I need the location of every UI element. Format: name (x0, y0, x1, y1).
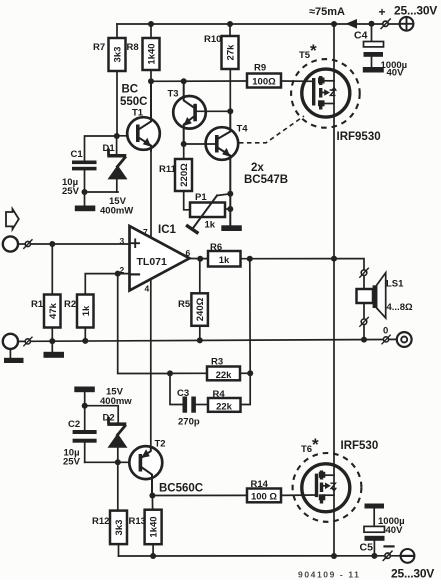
node output R5 junction (197, 256, 203, 262)
resistor R1 (51, 244, 53, 295)
mosfet T6 internals (315, 474, 318, 498)
svg-text:BC560C: BC560C (159, 483, 203, 495)
ground below input bottom (9, 349, 11, 358)
thermal coupling dashed line T4 to T5 (239, 116, 304, 143)
minus input symbol (132, 273, 140, 275)
transistor T4 (206, 127, 239, 160)
wire input to IC1 pin3 (30, 243, 129, 245)
mosfet T6 body circle (302, 464, 350, 512)
svg-text:IRF9530: IRF9530 (337, 131, 381, 143)
svg-text:40V: 40V (387, 68, 405, 79)
node T3 collector junction (181, 78, 187, 84)
node feedback column top junction (247, 256, 253, 262)
node R8 top junction (148, 21, 154, 27)
wire output to speaker (334, 259, 364, 270)
svg-text:T6: T6 (301, 444, 312, 455)
svg-text:R14: R14 (251, 479, 269, 490)
connector slash input bottom (18, 340, 25, 342)
node T5 column top junction (331, 21, 337, 27)
wire T2 base line (85, 461, 139, 463)
svg-text:R3: R3 (211, 357, 223, 368)
resistor R8 (143, 38, 160, 70)
wire R11 bottom to P1 left (184, 191, 190, 210)
node P1 wiper junction (227, 191, 233, 197)
resistor R5 (199, 259, 201, 294)
svg-text:1k: 1k (81, 305, 92, 316)
svg-text:0: 0 (383, 326, 388, 337)
mosfet T6 heatsink dashed circle (293, 453, 362, 522)
svg-text:LS1: LS1 (386, 279, 404, 290)
svg-text:T3: T3 (168, 89, 179, 100)
svg-text:IRF530: IRF530 (341, 440, 379, 452)
label minus sign at supply (385, 545, 394, 547)
wire C1 bottom to D1 bottom (85, 191, 119, 193)
svg-text:904109 - 11: 904109 - 11 (298, 570, 361, 580)
wire positive top rail (117, 23, 400, 25)
node output column junction (331, 256, 337, 262)
resistor R4 (208, 398, 241, 412)
svg-text:D1: D1 (103, 143, 116, 154)
node R1 top junction (49, 241, 55, 247)
svg-text:25V: 25V (63, 457, 81, 468)
wire P1 right to T4 emitter column (225, 208, 230, 210)
zener D2 (107, 422, 126, 426)
terminal plus supply (400, 17, 414, 31)
svg-text:C1: C1 (71, 149, 84, 160)
svg-text:C4: C4 (354, 30, 368, 42)
svg-text:3: 3 (120, 236, 125, 246)
svg-text:22k: 22k (216, 370, 233, 381)
svg-text:40V: 40V (386, 525, 404, 536)
svg-text:C5: C5 (360, 542, 374, 554)
svg-text:47k: 47k (48, 302, 59, 319)
svg-text:R12: R12 (92, 516, 109, 527)
zener D1 (116, 136, 118, 155)
wire to R3 (170, 372, 207, 374)
wire R3 right to feedback column (240, 372, 250, 374)
svg-text:220Ω: 220Ω (179, 163, 190, 187)
capacitor C4 (371, 24, 373, 42)
resistor R7 (109, 38, 126, 71)
wire R8 branch from rail (150, 24, 152, 38)
node feedback R3 C3 junction (167, 370, 173, 376)
svg-text:100Ω: 100Ω (252, 77, 276, 88)
svg-text:BC: BC (122, 84, 139, 96)
svg-text:4: 4 (145, 284, 150, 294)
resistor R11 (183, 144, 185, 159)
terminal 0 output (397, 332, 412, 347)
svg-text:R7: R7 (93, 42, 105, 53)
svg-text:6: 6 (186, 248, 191, 258)
wire R7 bottom to base node (116, 71, 118, 136)
svg-text:T2: T2 (155, 439, 166, 450)
resistor R6 (208, 251, 241, 267)
terminal input bottom (3, 334, 18, 349)
svg-text:D2: D2 (103, 413, 115, 424)
svg-text:25V: 25V (62, 186, 80, 197)
transistor T2 (129, 446, 162, 479)
svg-text:22k: 22k (216, 401, 233, 412)
node R1 bottom junction (49, 338, 55, 344)
svg-text:27k: 27k (226, 44, 237, 61)
svg-text:TL071: TL071 (137, 256, 168, 268)
node D2 R12 junction (115, 459, 121, 465)
mosfet T5 heatsink dashed circle (291, 59, 360, 128)
node speaker return junction (361, 337, 367, 343)
svg-text:3k3: 3k3 (114, 520, 125, 536)
svg-text:1k: 1k (219, 255, 230, 266)
svg-text:25...30V: 25...30V (391, 567, 434, 581)
node T3 emitter R11 T4 base junction (181, 141, 187, 147)
input signal arrow symbol (6, 209, 19, 229)
wire T2 collector to R14 (152, 494, 247, 496)
svg-text:1k40: 1k40 (149, 516, 160, 537)
wire T6 column output node to rail (333, 259, 335, 556)
svg-text:25...30V: 25...30V (394, 4, 437, 18)
node T2 collector R13 junction (149, 493, 155, 499)
connector slash speaker bottom (361, 319, 367, 325)
svg-text:270p: 270p (178, 417, 200, 428)
node R5 bottom junction (197, 337, 203, 343)
svg-text:R11: R11 (159, 164, 177, 175)
svg-text:R10: R10 (204, 34, 221, 45)
node C2 D2 top junction (82, 403, 88, 409)
node C4 top junction (369, 21, 375, 27)
terminal input top (3, 236, 18, 251)
resistor R9 (247, 74, 281, 88)
wire R6 right to output column (241, 258, 335, 260)
wire R8 bottom to gate line node (150, 70, 152, 81)
resistor R10 (222, 36, 239, 69)
node R8 T1 collector junction (148, 78, 154, 84)
node P1 right junction (227, 206, 233, 212)
transistor T1 (127, 117, 160, 150)
connector slash speaker top (361, 270, 367, 276)
connector slash bottom supply (385, 553, 390, 558)
wire R9 to T5 gate (281, 80, 314, 82)
svg-text:2: 2 (120, 265, 125, 275)
svg-text:7: 7 (143, 227, 148, 237)
mosfet T5 body circle (302, 69, 350, 117)
resistor R3 (207, 367, 240, 381)
capacitor C1 (72, 161, 97, 165)
wire R12 bottom to negative rail (118, 544, 120, 556)
svg-text:T4: T4 (237, 124, 249, 135)
svg-text:2x: 2x (251, 162, 264, 174)
svg-text:P1: P1 (195, 192, 207, 203)
wire feedback column (241, 259, 251, 405)
svg-text:R8: R8 (127, 42, 139, 53)
svg-text:R9: R9 (254, 63, 266, 74)
current direction arrow 75mA (346, 19, 358, 29)
svg-text:1k40: 1k40 (147, 43, 158, 64)
transistor T3 (173, 96, 206, 129)
connector slash top supply (383, 21, 388, 26)
mosfet T5 internals (312, 78, 315, 106)
svg-text:400mW: 400mW (100, 206, 133, 217)
svg-text:R2: R2 (64, 299, 76, 310)
node C1 D1 bottom junction (82, 189, 88, 195)
svg-text:IC1: IC1 (158, 224, 177, 236)
preset P1 (190, 203, 225, 218)
resistor R13 (151, 496, 153, 510)
connector slash 0 terminal (383, 337, 388, 342)
node R2 bottom junction (82, 338, 88, 344)
node T1 base node (114, 133, 120, 139)
wire IC1 pin4 to T2 emitter (150, 280, 152, 448)
capacitor C2 (84, 406, 86, 430)
wire base node to T1 base (117, 135, 137, 137)
svg-text:BC547B: BC547B (244, 174, 288, 186)
connector slash input top (18, 243, 25, 245)
capacitor C5 ground bar (365, 504, 385, 509)
svg-text:+: + (379, 5, 386, 19)
ground below T4 emitter (221, 225, 242, 231)
wire negative bottom rail (119, 555, 401, 557)
capacitor C3 (183, 397, 188, 413)
ground above C2 (74, 387, 95, 393)
resistor R14 (247, 489, 281, 503)
wire R10 bottom down to T4 collector node (229, 69, 231, 111)
svg-text:*: * (310, 41, 317, 60)
svg-text:400mw: 400mw (100, 396, 132, 407)
resistor R12 (117, 462, 119, 510)
svg-text:100 Ω: 100 Ω (251, 492, 277, 503)
svg-text:3k3: 3k3 (113, 47, 124, 63)
capacitor C5 (373, 509, 375, 527)
wire IC1 output to R6 (190, 258, 209, 260)
svg-text:*: * (312, 435, 319, 454)
wire gate drive line to R9 (151, 80, 247, 82)
loudspeaker LS1 (357, 289, 374, 303)
ground below C1 (84, 192, 86, 206)
node R10 top junction (227, 21, 233, 27)
node T4 collector T3 base junction (227, 108, 233, 114)
wire feedback from pin2 down (118, 274, 170, 374)
svg-text:R6: R6 (210, 242, 222, 253)
wire base node left to C1 (85, 136, 117, 161)
svg-text:240Ω: 240Ω (195, 297, 206, 321)
node C5 rail junction (371, 553, 377, 559)
wire R10 branch from rail (229, 24, 231, 36)
terminal minus supply (401, 549, 415, 563)
svg-text:C3: C3 (177, 388, 189, 399)
wire R14 to T6 gate (281, 494, 317, 496)
svg-text:R13: R13 (129, 516, 146, 527)
plus input symbol (132, 242, 140, 244)
node feedback to pin2 junction (115, 271, 121, 277)
wire signal ground line to 0 terminal (30, 339, 396, 341)
svg-text:1k: 1k (205, 220, 216, 231)
wire T1 emitter to IC1 pin7 (150, 151, 152, 237)
node R3 right junction (247, 370, 253, 376)
svg-text:R5: R5 (178, 299, 191, 310)
svg-text:≈75mA: ≈75mA (309, 6, 345, 18)
resistor R2 (85, 274, 129, 295)
wire speaker bottom (363, 303, 365, 319)
ground below R1 (51, 341, 53, 352)
svg-text:R1: R1 (31, 299, 44, 310)
wire down to C3 (170, 374, 183, 405)
wire T5 column rail to output node (333, 24, 335, 259)
svg-text:4...8Ω: 4...8Ω (387, 302, 413, 313)
svg-text:550C: 550C (120, 96, 148, 108)
wire R7 branch from rail (116, 24, 118, 38)
svg-text:R4: R4 (213, 389, 226, 400)
ground below C4 (363, 67, 384, 73)
wire to D2 top (85, 406, 119, 423)
op-amp IC1 (130, 226, 190, 291)
node T6 source rail junction (331, 553, 337, 559)
node R13 bottom junction (150, 553, 156, 559)
svg-text:C2: C2 (68, 419, 80, 430)
